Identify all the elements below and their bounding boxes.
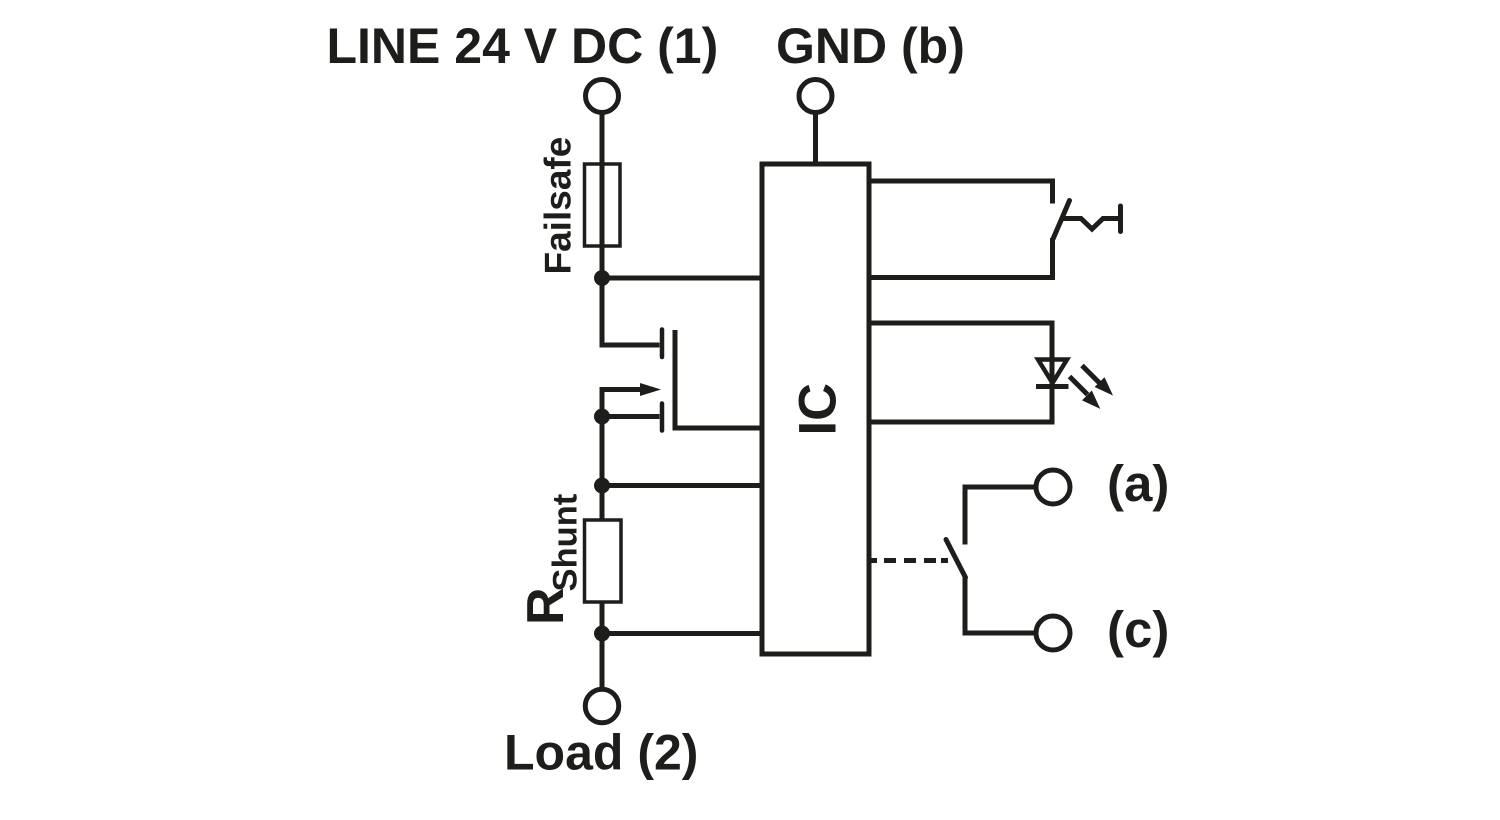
svg-text:GND (b): GND (b) [776, 18, 965, 74]
svg-text:Failsafe: Failsafe [538, 137, 579, 275]
svg-text:(c): (c) [1107, 601, 1169, 658]
svg-text:(a): (a) [1107, 455, 1169, 512]
svg-text:LINE 24 V DC (1): LINE 24 V DC (1) [327, 18, 719, 74]
svg-text:IC: IC [789, 383, 848, 436]
svg-text:Load (2): Load (2) [504, 725, 698, 781]
